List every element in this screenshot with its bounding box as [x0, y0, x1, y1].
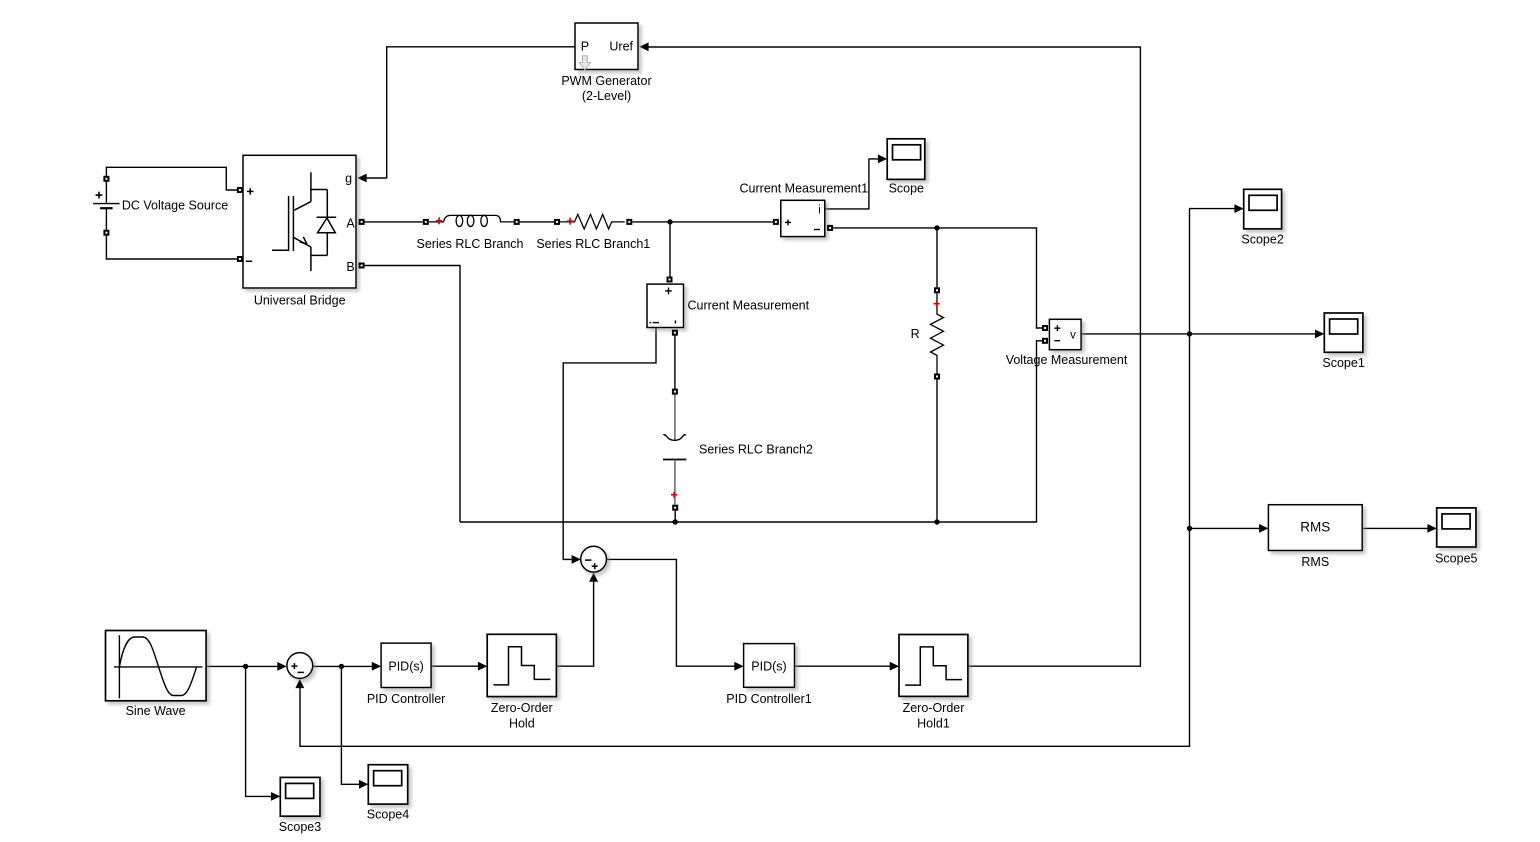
- wire ZOH1 output to PWM Uref (feedback rail x=1140): [648, 47, 1140, 666]
- RMS block: [1268, 505, 1362, 551]
- node after resistor: [667, 219, 672, 224]
- svg-text:Current Measurement1: Current Measurement1: [740, 181, 869, 195]
- wire PID Controller1 to Zero-Order Hold1: [795, 665, 891, 667]
- wire Sine Wave output to Sum1: [206, 665, 278, 667]
- port VM +: [1042, 325, 1048, 331]
- Series RLC Branch inductor L1: [429, 215, 514, 226]
- svg-text:g: g: [345, 172, 352, 186]
- port capacitor top: [672, 389, 678, 395]
- arrow into Scope1: [1315, 330, 1324, 339]
- svg-text:(2-Level): (2-Level): [582, 89, 631, 103]
- node RMS feed: [1187, 526, 1192, 531]
- svg-text:Zero-Order: Zero-Order: [491, 701, 553, 715]
- port R top: [934, 287, 940, 293]
- arrow into sum - input: [572, 555, 581, 564]
- wire bottom rail: [460, 341, 1042, 522]
- Scope4 block: [368, 765, 407, 804]
- svg-text:Zero-Order: Zero-Order: [903, 701, 965, 715]
- svg-text:PID(s): PID(s): [751, 659, 786, 673]
- Current Measurement block: [647, 284, 684, 327]
- wire Sum1 output to PID Controller: [313, 665, 372, 667]
- port squares: [103, 176, 1048, 511]
- R resistor vertical: [931, 293, 944, 373]
- IGBT symbol inside bridge: [272, 172, 327, 271]
- svg-text:A: A: [346, 216, 355, 230]
- node capacitor bottom on rail: [673, 519, 678, 524]
- svg-text:Series RLC Branch2: Series RLC Branch2: [699, 442, 813, 456]
- node R top: [934, 225, 939, 230]
- svg-text:Voltage Measurement: Voltage Measurement: [1006, 353, 1128, 367]
- svg-text:Uref: Uref: [609, 39, 633, 53]
- port bridge -: [237, 256, 243, 262]
- bridge + sign: [246, 188, 254, 261]
- svg-text:PID Controller1: PID Controller1: [726, 692, 811, 706]
- svg-text:Sine Wave: Sine Wave: [126, 704, 186, 718]
- port resistor right: [626, 219, 632, 225]
- wire sine node down to Scope3: [246, 666, 272, 796]
- svg-text:Hold1: Hold1: [917, 717, 950, 731]
- svg-text:Hold: Hold: [509, 717, 535, 731]
- svg-text:R: R: [911, 327, 920, 341]
- svg-text:Scope2: Scope2: [1241, 232, 1283, 246]
- svg-text:i: i: [818, 204, 821, 216]
- Zero-Order Hold1 block: [899, 635, 968, 697]
- svg-text:DC Voltage Source: DC Voltage Source: [122, 198, 228, 212]
- arrow into Scope5: [1427, 524, 1436, 533]
- Voltage Measurement block: [1049, 319, 1081, 349]
- Current Measurement1 block: [781, 200, 825, 236]
- wire node R top: [936, 228, 938, 287]
- port bridge B: [359, 263, 365, 269]
- svg-text:Series RLC Branch1: Series RLC Branch1: [536, 237, 650, 251]
- arrow into Sum1 - input (up): [295, 679, 304, 688]
- svg-text:Scope1: Scope1: [1322, 356, 1364, 370]
- svg-text:Series RLC Branch: Series RLC Branch: [417, 237, 524, 251]
- svg-text:Scope5: Scope5: [1435, 552, 1477, 566]
- arrow into sum + input (up): [589, 573, 598, 582]
- svg-text:P: P: [581, 39, 589, 53]
- port capacitor bottom: [672, 505, 678, 511]
- wire bridge B down to rail: [364, 266, 460, 523]
- arrow into Scope: [878, 155, 887, 164]
- port battery +: [103, 176, 109, 182]
- wire PWM P output to bridge g: [366, 47, 575, 178]
- svg-text:Current Measurement: Current Measurement: [688, 298, 810, 312]
- wire CM i output to sum: [563, 328, 656, 560]
- port inductor left: [423, 219, 429, 225]
- svg-text:B: B: [346, 260, 354, 274]
- svg-text:PID(s): PID(s): [388, 659, 423, 673]
- svg-text:Scope: Scope: [889, 182, 924, 196]
- svg-text:PID Controller: PID Controller: [367, 692, 446, 706]
- wire node down to feedback to Sum1 -: [300, 334, 1190, 746]
- Scope5 block: [1437, 508, 1476, 547]
- svg-text:PWM Generator: PWM Generator: [561, 74, 651, 88]
- wire node junction down to Current Measurement: [669, 222, 671, 277]
- port inductor right: [514, 219, 520, 225]
- wire RMS to Scope5: [1362, 527, 1428, 529]
- Scope block: [887, 139, 925, 180]
- diode inside bridge: [317, 190, 337, 256]
- Sum1 block (voltage loop): [287, 653, 313, 679]
- arrow into PID Controller: [372, 662, 381, 671]
- arrow into PWM Uref: [639, 42, 648, 51]
- PWM Generator block U1: [575, 23, 638, 70]
- rotated i at bottom left: [653, 322, 659, 324]
- node sine output: [243, 664, 248, 669]
- wire CM1 i output to Scope: [825, 159, 878, 209]
- svg-text:v: v: [1070, 329, 1076, 341]
- wire bridge A to Series RLC Branch: [364, 221, 423, 223]
- Zero-Order Hold block: [487, 634, 556, 696]
- red + of R: [934, 301, 940, 307]
- arrow into Sum1: [277, 662, 286, 671]
- Sine Wave block: [106, 631, 207, 701]
- port bridge A: [359, 219, 365, 225]
- bridge - sign: [246, 260, 252, 262]
- arrow into RMS: [1259, 524, 1268, 533]
- Series RLC Branch2 capacitor C1: [663, 395, 686, 505]
- svg-text:Universal Bridge: Universal Bridge: [254, 293, 346, 307]
- wire node to RMS: [1190, 527, 1260, 529]
- emitter arrowhead: [300, 237, 307, 244]
- Universal Bridge block: [243, 155, 356, 288]
- wire sum1 node down to Scope4: [341, 666, 359, 784]
- port CM top: [667, 277, 673, 283]
- Scope3 block: [280, 777, 320, 816]
- wire sum output to PID Controller1: [607, 559, 735, 666]
- wire CM bottom to capacitor top: [674, 336, 676, 389]
- node VM output: [1187, 331, 1192, 336]
- wire Voltage Measurement output to node: [1081, 333, 1189, 335]
- arrow into ZOH: [478, 662, 487, 671]
- wire R bottom to rail: [936, 380, 938, 523]
- port CM1 -: [827, 225, 833, 231]
- arrow into Scope2: [1234, 204, 1243, 213]
- port VM -: [1042, 338, 1048, 344]
- DC Voltage Source battery: [93, 182, 120, 230]
- port CM bottom: [672, 330, 678, 336]
- wire CM1 - to Voltage Measurement +: [833, 228, 1042, 328]
- port R bottom: [934, 374, 940, 380]
- svg-text:Scope4: Scope4: [367, 807, 409, 821]
- port resistor left: [554, 219, 560, 225]
- arrow into ZOH1: [890, 662, 899, 671]
- svg-text:RMS: RMS: [1301, 555, 1329, 569]
- wire inductor to resistor: [520, 221, 554, 223]
- rotated - at bottom right: [674, 320, 676, 323]
- wire node up to Scope2: [1190, 209, 1235, 334]
- wire resistor to Current Measurement1 +: [632, 221, 773, 223]
- node R bottom on rail: [934, 519, 939, 524]
- wire node to Scope1: [1190, 333, 1316, 335]
- svg-text:RMS: RMS: [1300, 520, 1330, 535]
- port battery -: [103, 230, 109, 236]
- Scope1 block: [1324, 313, 1363, 352]
- PID Controller block: [381, 643, 431, 687]
- node sum1 output: [339, 664, 344, 669]
- arrow into Scope3: [271, 792, 280, 801]
- wire capacitor bottom to rail: [674, 511, 676, 522]
- red + of capacitor: [671, 492, 677, 498]
- wire battery + to bridge +: [106, 167, 237, 190]
- red + of inductor: [436, 217, 442, 224]
- arrowheads: [271, 42, 1437, 800]
- svg-text:Scope3: Scope3: [279, 820, 321, 834]
- gray output-direction arrow: [579, 56, 590, 70]
- wire PID Controller to Zero-Order Hold: [431, 665, 478, 667]
- battery + sign: [96, 192, 103, 199]
- port bridge +: [237, 187, 243, 193]
- sum block (current loop): [581, 546, 607, 572]
- Series RLC Branch1 resistor R1: [560, 214, 625, 229]
- PID Controller1 block: [744, 644, 795, 688]
- arrow into PID Controller1: [734, 662, 743, 671]
- wire battery - to bridge -: [106, 236, 237, 259]
- Scope2 block: [1244, 189, 1282, 229]
- red + of resistor: [567, 218, 573, 225]
- arrow into bridge g: [357, 174, 366, 183]
- arrow into Scope4: [359, 780, 368, 789]
- port CM1 +: [773, 219, 779, 225]
- wire ZOH output to sum +: [556, 582, 593, 667]
